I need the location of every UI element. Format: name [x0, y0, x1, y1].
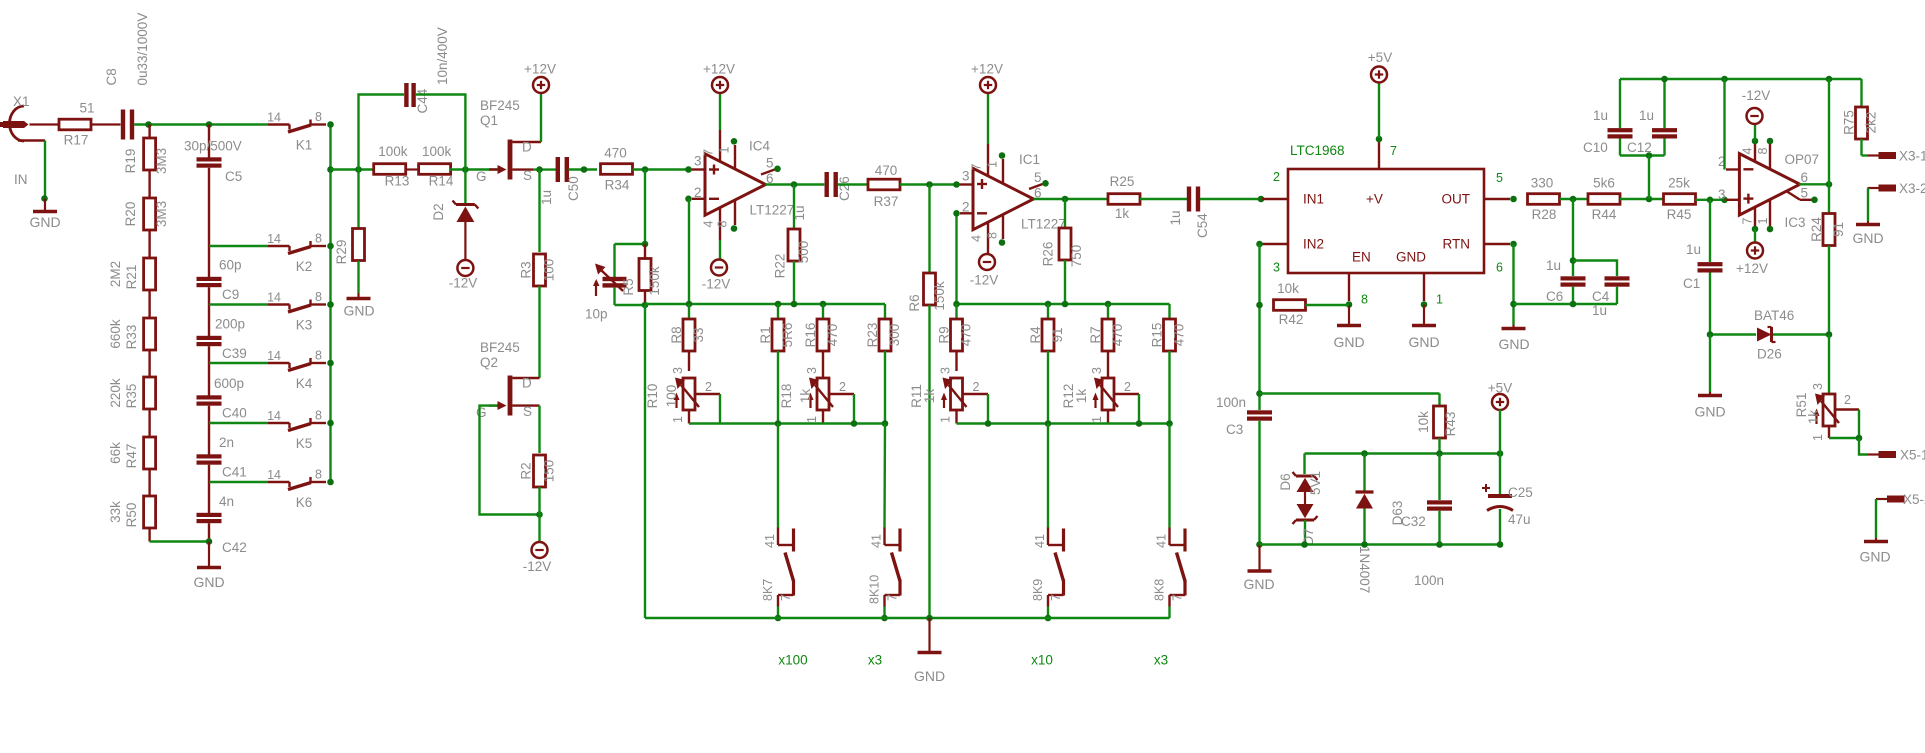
svg-text:51: 51 [79, 101, 94, 116]
resistor R2 150 [519, 455, 557, 487]
net label x3 (right) [1154, 653, 1168, 668]
svg-text:R25: R25 [1110, 174, 1135, 189]
svg-text:8: 8 [315, 110, 322, 124]
svg-text:8K9: 8K9 [1031, 579, 1045, 601]
svg-text:7: 7 [1741, 218, 1755, 225]
resistor R13 100k [374, 144, 410, 189]
svg-text:-12V: -12V [970, 273, 999, 288]
svg-text:S: S [523, 168, 532, 183]
svg-text:R42: R42 [1279, 312, 1304, 327]
wire node3 to K3 [209, 303, 268, 305]
resistor R28 330 [1528, 176, 1560, 223]
svg-text:1u: 1u [1686, 242, 1701, 257]
svg-text:R5: R5 [621, 278, 636, 295]
resistor R6 150k [907, 185, 947, 312]
wire C6/C4 bottom [1514, 301, 1618, 308]
diode D26 BAT46 [1754, 308, 1794, 362]
svg-text:G: G [476, 405, 487, 420]
capacitor C54 1u [1168, 187, 1210, 239]
wire stage2 bottom node [957, 420, 1173, 427]
wire X1 to R17 [30, 123, 60, 125]
LTC pin 3 IN2 [1256, 241, 1288, 275]
svg-text:R50: R50 [124, 503, 139, 528]
svg-text:25k: 25k [1668, 176, 1690, 191]
wire bottom bus [645, 615, 1170, 622]
svg-text:GND: GND [343, 303, 374, 319]
resistor R17 51 [59, 101, 95, 148]
wire R34 to IC4 +in [633, 166, 693, 173]
wire K7 to bus [775, 607, 782, 622]
wire node to K9 [1047, 424, 1049, 528]
supply +5V (C25) [1488, 381, 1512, 411]
svg-text:3: 3 [1090, 367, 1104, 374]
wire R6 to bottom bus [928, 305, 930, 618]
svg-text:14: 14 [267, 409, 281, 423]
svg-text:D: D [522, 376, 532, 391]
svg-text:1u: 1u [1593, 108, 1608, 123]
svg-text:10k: 10k [1416, 411, 1431, 433]
wire R24 to R51 [1828, 335, 1830, 395]
svg-text:10k: 10k [1277, 281, 1299, 296]
svg-text:8: 8 [1361, 293, 1368, 307]
svg-text:5R6: 5R6 [780, 323, 795, 348]
svg-text:GND: GND [1852, 230, 1883, 246]
svg-text:8K10: 8K10 [868, 575, 882, 604]
svg-text:R10: R10 [645, 384, 660, 409]
wire stage1 node down [644, 305, 646, 618]
svg-text:R3: R3 [519, 261, 534, 278]
svg-text:OUT: OUT [1442, 192, 1471, 207]
svg-text:C6: C6 [1546, 289, 1563, 304]
supply -12V (OP07) [1742, 88, 1771, 141]
capacitor C3 100n [1216, 395, 1272, 545]
wire R45 to OP07 [1696, 197, 1728, 204]
supply +12V (OP07) [1736, 229, 1768, 276]
wire R42 to EN [1306, 304, 1350, 306]
svg-text:C8: C8 [104, 68, 119, 85]
svg-text:14: 14 [267, 349, 281, 363]
svg-text:X5-2: X5-2 [1903, 492, 1925, 507]
op-amp IC3 OP07 [1718, 138, 1819, 233]
svg-text:D2: D2 [431, 203, 446, 220]
wire RTN down [1510, 244, 1517, 325]
resistor R37 470 [868, 163, 900, 209]
ground GND (RTN) [1498, 325, 1529, 352]
svg-text:R33: R33 [124, 325, 139, 350]
svg-text:K4: K4 [296, 376, 313, 391]
svg-text:2k2: 2k2 [1864, 112, 1879, 134]
wire IC1 -in down [953, 210, 960, 304]
svg-text:-12V: -12V [449, 276, 478, 291]
svg-text:x100: x100 [778, 653, 807, 668]
LTC pin 7 +V [1376, 136, 1397, 169]
wire node6 to K6 [209, 481, 268, 483]
svg-text:2: 2 [839, 380, 846, 394]
resistor R26 750 [1041, 199, 1085, 304]
svg-text:R47: R47 [124, 444, 139, 469]
svg-text:1u: 1u [539, 190, 554, 205]
supply -12V (D2) [449, 260, 478, 291]
svg-text:x3: x3 [1154, 653, 1168, 668]
wire R2 to node [538, 487, 540, 515]
svg-text:R6: R6 [907, 294, 922, 311]
svg-text:x10: x10 [1031, 653, 1053, 668]
svg-text:BAT46: BAT46 [1754, 308, 1794, 323]
wire +5V bus [1305, 450, 1504, 457]
resistor R25 1k [1108, 174, 1140, 221]
svg-text:D: D [522, 140, 532, 155]
trimmer R51 1k [1794, 383, 1862, 441]
wire R28 to R44 [1560, 196, 1589, 203]
trimmer capacitor C 10p [585, 244, 627, 322]
svg-text:C1: C1 [1683, 276, 1700, 291]
svg-text:1u: 1u [792, 205, 807, 220]
svg-text:3: 3 [671, 367, 685, 374]
wire +V to +5V [1378, 83, 1380, 139]
svg-text:4n: 4n [219, 494, 234, 509]
svg-text:R16: R16 [803, 323, 818, 348]
svg-text:470: 470 [604, 146, 627, 161]
wire C8 to K1 (node IN-top) [134, 121, 268, 128]
wire IC4 pin4 to -12V [719, 240, 721, 260]
svg-text:14: 14 [267, 291, 281, 305]
svg-text:1k: 1k [922, 389, 937, 404]
svg-text:3M3: 3M3 [154, 201, 169, 227]
wire R14 to Q1 gate [449, 166, 497, 173]
ground GND (R29) [343, 293, 374, 319]
svg-text:X3-1: X3-1 [1899, 149, 1925, 164]
wire R13 to R14 [405, 168, 420, 170]
svg-text:2: 2 [1273, 170, 1280, 184]
supply +12V (Q1) [524, 62, 556, 94]
ground GND (ladder) [193, 542, 224, 591]
svg-text:330: 330 [1531, 176, 1554, 191]
svg-text:R17: R17 [64, 133, 89, 148]
svg-text:8: 8 [315, 290, 322, 304]
supply -12V (IC1) [970, 254, 999, 288]
resistor R5 150k [621, 244, 662, 305]
supply -12V (Q2) [523, 542, 552, 574]
svg-text:1: 1 [939, 416, 953, 423]
svg-text:1: 1 [1756, 218, 1770, 225]
svg-text:C41: C41 [222, 465, 247, 480]
svg-text:1: 1 [671, 416, 685, 423]
op-amp IC1 LT1227 [960, 144, 1066, 254]
svg-text:C32: C32 [1401, 514, 1426, 529]
capacitor C26 1u [792, 172, 852, 221]
svg-text:LTC1968: LTC1968 [1290, 143, 1345, 158]
svg-text:D6: D6 [1278, 473, 1293, 490]
wire C54 to LTC IN1 [1200, 196, 1264, 203]
svg-text:91: 91 [1050, 327, 1065, 342]
svg-text:3: 3 [805, 367, 819, 374]
svg-text:100k: 100k [378, 144, 408, 159]
capacitor C6 1u [1546, 199, 1586, 304]
wire C50 to R34 [569, 166, 598, 173]
ground GND (X5-2) [1859, 538, 1890, 565]
wire R17 to C8 [91, 123, 121, 125]
wire bus to R13 [331, 166, 375, 173]
svg-text:750: 750 [1069, 245, 1084, 268]
svg-text:33: 33 [691, 327, 706, 342]
node feedback bottom link [615, 302, 649, 309]
wire Q2 source to R2 [538, 406, 540, 453]
svg-text:8: 8 [986, 232, 1000, 239]
node feedback top link [615, 241, 649, 248]
LTC pin 6 RTN [1484, 241, 1517, 275]
wire IC4 pin7 to +12V [719, 93, 721, 130]
connector X1 [0, 94, 45, 141]
LTC pin 1 GND [1421, 273, 1443, 308]
svg-text:R2: R2 [519, 462, 534, 479]
svg-text:C9: C9 [222, 287, 239, 302]
relay contact K3 [267, 290, 326, 333]
svg-text:C42: C42 [222, 540, 247, 555]
capacitor C25 47u [1482, 454, 1533, 545]
capacitor C12 1u [1627, 79, 1677, 156]
svg-text:G: G [476, 169, 487, 184]
svg-text:IN2: IN2 [1303, 237, 1324, 252]
capacitor C42 4n [197, 482, 247, 555]
wire node5 to K5 [209, 422, 268, 424]
wire C26 to R37 [838, 183, 868, 185]
connector X5-2 [1876, 492, 1925, 507]
svg-text:OP07: OP07 [1785, 152, 1820, 167]
svg-text:GND: GND [193, 574, 224, 590]
wire relay output bus [327, 121, 334, 485]
svg-text:2: 2 [694, 185, 702, 200]
svg-text:150k: 150k [932, 281, 947, 311]
svg-text:0u33/1000V: 0u33/1000V [135, 13, 150, 86]
svg-text:1k: 1k [1074, 389, 1089, 404]
svg-text:K6: K6 [296, 495, 313, 510]
wire output to rail [1828, 79, 1830, 184]
ground GND (pin1) [1408, 305, 1439, 351]
wire X3-2 to GND [1867, 188, 1869, 221]
svg-text:1k: 1k [1115, 206, 1130, 221]
trimmer R18 1k [779, 367, 854, 424]
wire node to K10 [883, 424, 886, 528]
wire R44 to R45 [1620, 196, 1664, 203]
svg-text:1k: 1k [798, 389, 813, 404]
resistor R19 3M3 [123, 125, 169, 199]
svg-text:60p: 60p [219, 258, 242, 273]
wire R37 to IC1 +in [900, 181, 960, 188]
svg-text:GND: GND [1408, 334, 1439, 350]
resistor R22 500 [773, 185, 812, 305]
wire R3 to Q2 drain [538, 286, 540, 378]
svg-text:1: 1 [1090, 416, 1104, 423]
svg-text:R45: R45 [1667, 207, 1692, 222]
svg-text:R9: R9 [937, 326, 952, 343]
resistor R44 5k6 [1588, 176, 1620, 223]
svg-text:2: 2 [705, 380, 712, 394]
supply -12V (IC4) [702, 260, 731, 292]
svg-text:C25: C25 [1508, 485, 1533, 500]
svg-text:2: 2 [973, 380, 980, 394]
wire IC1 output [1034, 196, 1110, 203]
svg-text:8K7: 8K7 [761, 579, 775, 601]
svg-text:1u: 1u [1546, 258, 1561, 273]
IC LTC1968 box [1288, 143, 1484, 273]
svg-text:100n: 100n [1216, 395, 1246, 410]
svg-text:100n: 100n [1414, 573, 1444, 588]
svg-text:+12V: +12V [524, 62, 556, 77]
svg-text:1u: 1u [1639, 108, 1654, 123]
svg-text:-12V: -12V [1742, 88, 1771, 103]
ground GND (C3) [1243, 541, 1274, 592]
capacitor C8 0u33/1000V [104, 13, 150, 140]
ground GND (C1) [1694, 335, 1725, 420]
svg-text:14: 14 [267, 232, 281, 246]
wire node to K8 [1168, 424, 1170, 528]
svg-text:K2: K2 [296, 259, 313, 274]
svg-text:R8: R8 [669, 326, 684, 343]
resistor R7 470 [1088, 304, 1125, 378]
resistor R50 33k [108, 482, 156, 542]
svg-text:R19: R19 [123, 149, 138, 174]
svg-text:x3: x3 [868, 653, 882, 668]
wire +5V bottom bus [1260, 541, 1504, 548]
svg-text:2M2: 2M2 [108, 261, 123, 287]
capacitor C39 200p [197, 305, 247, 364]
resistor R21 2M2 [108, 246, 156, 305]
net label x3 (left) [868, 653, 882, 668]
svg-text:R1: R1 [758, 326, 773, 343]
svg-text:R21: R21 [124, 265, 139, 290]
svg-text:2: 2 [1124, 380, 1131, 394]
svg-text:GND: GND [1859, 549, 1890, 565]
svg-text:2n: 2n [219, 435, 234, 450]
resistor R45 25k [1664, 176, 1696, 223]
resistor R43 10k [1416, 394, 1458, 454]
wire X1 shield to GND [41, 141, 48, 202]
relay contact K7 [761, 528, 794, 607]
svg-text:GND: GND [1243, 576, 1274, 592]
svg-text:470: 470 [959, 324, 974, 347]
svg-text:4: 4 [702, 221, 716, 228]
svg-text:R43: R43 [1443, 412, 1458, 437]
svg-text:+12V: +12V [1736, 261, 1768, 276]
resistor R14 100k [419, 144, 454, 189]
svg-text:GND: GND [1694, 404, 1725, 420]
resistor R29 [334, 170, 365, 265]
svg-text:+V: +V [1366, 192, 1383, 207]
wire IC1 pin7 to +12V [987, 93, 989, 144]
capacitor C5 30p/500V [184, 125, 242, 247]
svg-text:S: S [523, 404, 532, 419]
connector X3-2 [1868, 181, 1925, 196]
svg-text:150k: 150k [647, 266, 662, 296]
wire R25 to C54 [1140, 198, 1187, 200]
svg-text:LT1227: LT1227 [750, 203, 795, 218]
svg-text:3: 3 [1273, 261, 1280, 275]
wire +5V stub [1499, 410, 1501, 454]
svg-text:3: 3 [1718, 187, 1726, 202]
svg-text:14: 14 [267, 111, 281, 125]
node Q1 source [533, 166, 556, 173]
svg-text:91: 91 [1831, 222, 1846, 237]
svg-text:C4: C4 [1592, 289, 1610, 304]
LTC pin 5 OUT [1484, 171, 1517, 202]
resistor R20 3M3 [123, 198, 169, 246]
wire IN2 down [1256, 244, 1263, 410]
svg-text:500: 500 [796, 241, 811, 264]
svg-text:5: 5 [1801, 186, 1809, 201]
wire OP07 output [1799, 181, 1832, 188]
svg-text:IC3: IC3 [1785, 215, 1806, 230]
wire K8 to bus [1168, 607, 1170, 619]
svg-text:150: 150 [542, 460, 557, 483]
resistor R34 470 [601, 146, 633, 193]
LTC pin 8 EN [1346, 273, 1368, 308]
svg-text:8: 8 [1756, 148, 1770, 155]
resistor R3 100 [519, 170, 557, 286]
resistor R47 66k [108, 423, 156, 482]
svg-text:7: 7 [1390, 144, 1397, 158]
svg-text:1u: 1u [1168, 210, 1183, 225]
relay contact K8 [1153, 528, 1186, 607]
svg-text:BF245: BF245 [480, 98, 520, 113]
svg-text:R24: R24 [1809, 217, 1824, 242]
wire K10 to bus [881, 607, 888, 622]
svg-text:8: 8 [315, 468, 322, 482]
diode D7 [1293, 492, 1318, 546]
svg-text:4: 4 [970, 235, 984, 242]
svg-text:RTN: RTN [1442, 237, 1470, 252]
svg-text:X3-2: X3-2 [1899, 181, 1925, 196]
resistor R24 91 [1809, 184, 1846, 334]
LTC pin 2 IN1 [1262, 170, 1288, 199]
svg-text:1: 1 [718, 147, 732, 154]
wire K9 to bus [1045, 607, 1052, 622]
wire node4 to K4 [209, 362, 268, 364]
trimmer R12 1k [1061, 367, 1139, 424]
svg-text:2: 2 [1844, 393, 1851, 407]
svg-text:7: 7 [886, 594, 900, 601]
svg-text:10p: 10p [585, 307, 608, 322]
svg-text:-12V: -12V [523, 559, 552, 574]
capacitor C4 1u [1573, 261, 1630, 319]
svg-text:8: 8 [716, 221, 730, 228]
svg-text:470: 470 [1110, 324, 1125, 347]
ground GND (bottom) [914, 618, 945, 684]
svg-text:41: 41 [763, 534, 777, 548]
svg-text:220k: 220k [108, 378, 123, 408]
svg-text:1N4007: 1N4007 [1357, 546, 1372, 593]
resistor R15 470 [1150, 304, 1187, 424]
svg-text:C50: C50 [566, 176, 581, 201]
capacitor C10 1u [1583, 79, 1633, 156]
diode D2 zener [431, 170, 478, 261]
svg-text:R4: R4 [1028, 326, 1043, 344]
svg-text:EN: EN [1352, 250, 1371, 265]
connector X3-1 [1868, 149, 1925, 164]
relay contact K4 [267, 349, 326, 392]
svg-text:R13: R13 [385, 174, 410, 189]
capacitor C9 60p [197, 246, 242, 305]
wire C1 node to D26 [1707, 331, 1756, 338]
transistor Q2 BF245 [476, 340, 540, 420]
svg-text:GND: GND [914, 668, 945, 684]
relay contact K6 [267, 468, 326, 511]
svg-text:1: 1 [1436, 293, 1443, 307]
svg-text:5: 5 [1034, 170, 1042, 185]
trimmer R11 1k [909, 367, 988, 424]
net label IN [14, 172, 28, 187]
svg-text:R7: R7 [1088, 326, 1103, 343]
ground GND (input) [29, 199, 60, 231]
